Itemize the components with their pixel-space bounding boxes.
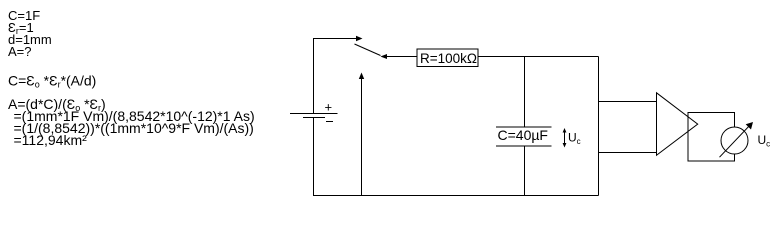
svg-text:+: + [325,100,333,115]
svg-text:C=40µF: C=40µF [498,127,548,143]
svg-text:R=100kΩ: R=100kΩ [420,51,477,66]
svg-text:=112,94km²: =112,94km² [14,132,88,148]
svg-text:A=?: A=? [8,44,32,59]
svg-text:C=Ɛo *Ɛr*(A/d): C=Ɛo *Ɛr*(A/d) [8,73,96,90]
